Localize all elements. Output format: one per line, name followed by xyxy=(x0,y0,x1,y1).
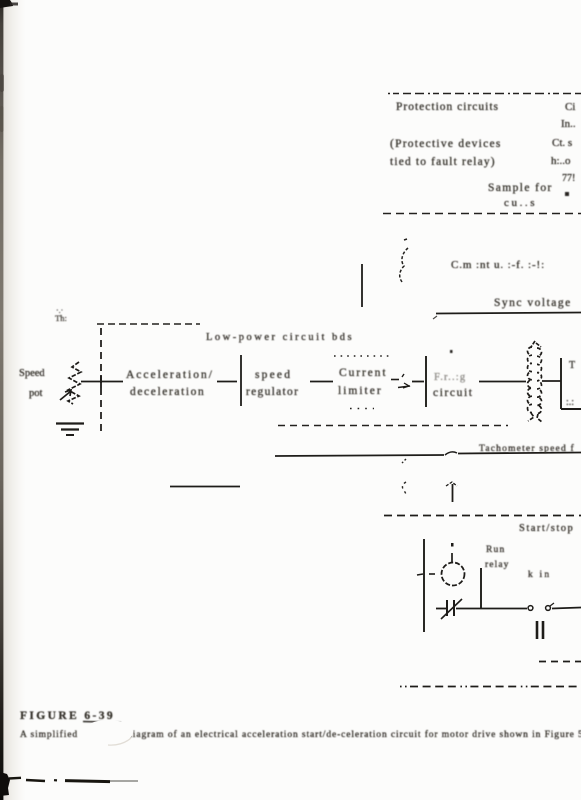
box: motor (cut off at right edge) xyxy=(561,358,581,409)
svg-text:k in: k in xyxy=(528,570,551,580)
block: acceleration/deceleration xyxy=(126,369,214,398)
svg-text:Protection circuits: Protection circuits xyxy=(396,101,499,113)
block: current limiter xyxy=(338,367,387,397)
svg-text:T: T xyxy=(569,360,575,371)
protection circuits dashed box: top edge xyxy=(388,93,581,95)
block: speed regulator xyxy=(246,369,299,398)
svg-text:relay: relay xyxy=(485,560,510,570)
transformer T1 xyxy=(528,341,543,422)
svg-text:F.r..:g: F.r..:g xyxy=(434,372,466,383)
ground xyxy=(56,424,84,436)
svg-text:deceleration: deceleration xyxy=(130,386,205,398)
svg-text:cu..s: cu..s xyxy=(504,197,537,209)
seal-in contact xyxy=(537,621,543,639)
svg-text:Low-power circuit bds: Low-power circuit bds xyxy=(206,332,354,343)
wire: speed regulator to current limiter xyxy=(310,381,333,383)
label: FIGURE 6-39 xyxy=(20,710,121,723)
wire: coil branch down xyxy=(480,568,482,608)
svg-text:Sample for: Sample for xyxy=(488,182,553,194)
wire: tachometer feedback line with hop xyxy=(275,452,581,456)
wire: sync voltage line xyxy=(436,313,581,314)
wire: firing circuit to transformer xyxy=(479,381,526,383)
box border: speed regulator left edge xyxy=(240,355,242,406)
svg-text:regulator: regulator xyxy=(246,386,299,398)
svg-text:circuit: circuit xyxy=(433,387,474,399)
spine mark top-left xyxy=(0,0,13,8)
brace squiggle xyxy=(402,459,406,494)
svg-text:77!: 77! xyxy=(562,173,575,184)
box border: current limiter dotted top xyxy=(334,355,392,357)
pushbutton contact (start) xyxy=(528,603,554,610)
wire: acceleration to speed regulator xyxy=(217,381,237,383)
svg-text:Start/stop: Start/stop xyxy=(519,523,574,534)
svg-text:Current: Current xyxy=(339,367,387,379)
svg-text:pot: pot xyxy=(29,388,43,399)
box border: firing circuit left edge xyxy=(425,356,427,407)
svg-text:Speed: Speed xyxy=(19,368,45,379)
svg-text:C.m :nt u. :-f. :-!:: C.m :nt u. :-f. :-!: xyxy=(451,259,545,271)
dashed separator bottom xyxy=(400,686,581,688)
low-power circuits dashed box: bottom edge xyxy=(278,425,508,427)
svg-text:h:..o: h:..o xyxy=(551,155,571,167)
wire with arrow: limiter to firing circuit xyxy=(391,374,410,388)
text fragment: Thr xyxy=(55,306,67,323)
relay coil M (circle) xyxy=(442,563,465,586)
svg-text:Ci: Ci xyxy=(565,101,575,113)
wire: pot wiper to acceleration block xyxy=(81,381,123,383)
svg-text:speed: speed xyxy=(255,369,292,381)
low-power circuits dashed box: top edge xyxy=(97,323,200,325)
spine mark bottom-left xyxy=(0,772,10,796)
tick on bus xyxy=(417,574,423,575)
contact NC (stop) xyxy=(436,599,481,619)
svg-text:Run: Run xyxy=(486,545,505,555)
svg-text:Tachometer speed f: Tachometer speed f xyxy=(479,443,575,454)
arrow up xyxy=(446,482,457,502)
wire: current feedback drop xyxy=(361,264,363,307)
whiteout blob over caption xyxy=(83,720,133,744)
book spine shading xyxy=(0,0,26,800)
wire segment (isolated) xyxy=(170,486,240,488)
svg-text:tied to fault relay): tied to fault relay) xyxy=(390,156,496,168)
low-power circuits dashed box: left edge xyxy=(100,328,102,431)
dashed wire: seal branch xyxy=(539,661,581,663)
dashed separator: start/stop section top xyxy=(384,515,581,517)
svg-text:(Protective devices: (Protective devices xyxy=(390,138,502,150)
potentiometer (speed pot) xyxy=(60,362,81,404)
wire: rung to pushbutton xyxy=(481,608,527,610)
svg-text::.:: :.: xyxy=(566,397,574,408)
clipped text fragments at right edge of protection box xyxy=(551,101,576,196)
wire: transformer to motor box xyxy=(542,380,561,382)
svg-text:limiter: limiter xyxy=(338,385,383,397)
box border: current limiter dotted bottom xyxy=(350,408,374,410)
svg-text:Acceleration/: Acceleration/ xyxy=(126,369,214,381)
svg-text:Ct. s: Ct. s xyxy=(552,137,572,149)
svg-text:Sync voltage: Sync voltage xyxy=(494,297,572,309)
wire: relay left bus xyxy=(423,539,425,632)
flex squiggle above firing circuit xyxy=(400,239,408,283)
pen mark dashes bottom-left xyxy=(9,778,138,782)
svg-text:Th:: Th: xyxy=(55,313,67,323)
svg-text:FIGURE 6-39: FIGURE 6-39 xyxy=(20,710,115,722)
label: Run relay xyxy=(485,545,510,570)
protection circuits dashed box: bottom edge xyxy=(383,213,581,215)
svg-text:In..: In.. xyxy=(561,118,576,130)
block: firing circuit xyxy=(433,350,474,399)
